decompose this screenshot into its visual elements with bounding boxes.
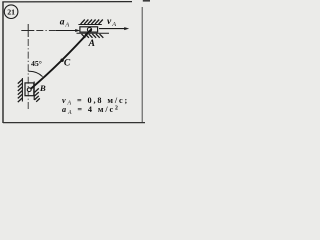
- vertical dash-dot centerline: [27, 39, 29, 110]
- bottom guide line at A: [77, 32, 110, 34]
- rod AB: [31, 29, 92, 89]
- bottom guide hatching: [82, 34, 104, 38]
- right guide hatching: [34, 88, 39, 101]
- right guide line at B: [33, 82, 35, 101]
- left wall guide line at B: [21, 78, 23, 102]
- svg-text:a: a: [60, 17, 65, 27]
- top guide hatching: [81, 20, 103, 25]
- background: [0, 0, 150, 126]
- point C dot: [60, 59, 63, 62]
- svg-text:A: A: [88, 39, 95, 49]
- svg-text:A: A: [111, 21, 116, 28]
- svg-text:45°: 45°: [31, 59, 42, 68]
- left wall hatching: [18, 80, 22, 103]
- 45 degree arc: [28, 71, 42, 76]
- problem number circle 21: [4, 5, 18, 19]
- velocity vector vA arrow: [99, 28, 126, 30]
- pivot A: [87, 28, 91, 32]
- svg-text:21: 21: [7, 7, 15, 16]
- svg-text:B: B: [39, 83, 46, 93]
- pivot B: [27, 88, 31, 92]
- horizontal dash-dot centerline: [36, 30, 58, 32]
- acceleration vector aA arrow: [56, 30, 77, 32]
- top guide line at A: [78, 24, 101, 26]
- node O cross (intersection of centerlines): [21, 30, 34, 32]
- svg-text:C: C: [64, 59, 71, 69]
- slider block at B: [25, 83, 34, 96]
- svg-text:A: A: [64, 21, 69, 28]
- slider block at A: [80, 27, 98, 32]
